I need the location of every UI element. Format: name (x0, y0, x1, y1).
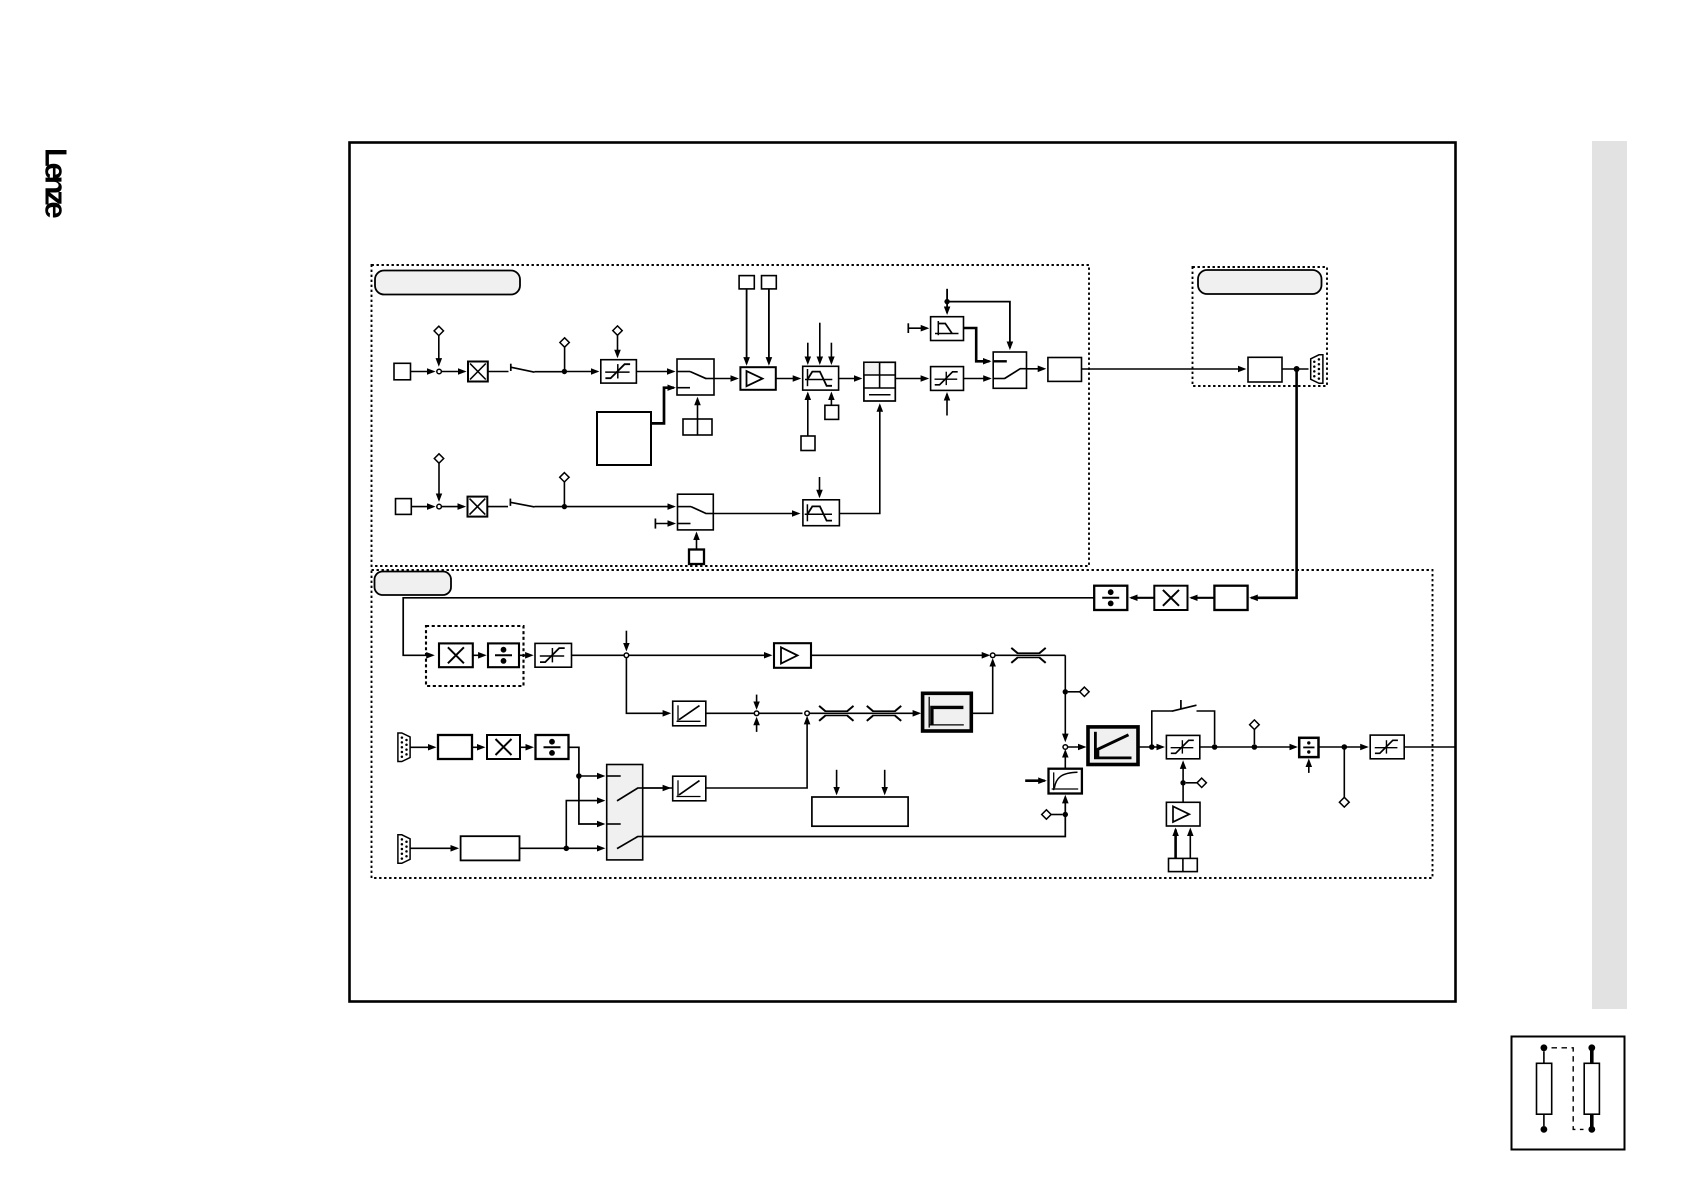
wire node A to amplifier block (629, 654, 771, 656)
divider box (feedback row) (1094, 586, 1127, 610)
wire S1 to amplifier (714, 378, 737, 380)
node C (open circle) (805, 711, 810, 716)
multiplier box 2 (X) (468, 497, 488, 517)
ramp block A (dI/dt) (673, 701, 706, 726)
parameter square right under ramp generator (825, 405, 839, 419)
wire node B rightwards with torque interface symbol (995, 654, 1065, 656)
wire clamp node to node C (759, 712, 803, 714)
wire multiplier to switch contact (488, 371, 509, 373)
wire junction 2 to changeover switch S3 (567, 506, 674, 508)
wire limiter 2 to changeover switch S2 (964, 378, 990, 380)
wire counter to selector input 4 with junction dot (520, 847, 604, 849)
branch wire to selector input 1 (579, 775, 603, 777)
wire amplifier to node B (811, 654, 988, 656)
wire limiter 4 to frame edge (1404, 746, 1455, 748)
divider box A (488, 643, 519, 667)
bold feedback wire down to division chain (1251, 370, 1296, 598)
wire node C to current limit block with interface symbols (809, 712, 919, 714)
wire PI output to limiter 3 with junction dot (1138, 746, 1163, 748)
wire diamond to node (438, 336, 440, 365)
section title plate (output section) (1198, 270, 1322, 294)
wire limiter A to node A (572, 654, 625, 656)
controller bypass switch loop (1152, 711, 1172, 747)
wire square to ramp generator bottom (807, 394, 809, 436)
changeover switch S3 (678, 494, 714, 530)
parameter diamond beside wire (1042, 810, 1051, 819)
wire B2 to summing node (411, 506, 433, 508)
outer frame of function diagram (350, 143, 1456, 1002)
connector X9 (encoder) (398, 835, 410, 864)
changeover switch S1 (677, 359, 714, 395)
wire P2 to amplifier top (768, 289, 770, 364)
node A lower branch to ramp block A (626, 658, 669, 714)
parameter diamond beside junction (1080, 687, 1089, 696)
parameter stub into S-ramp top (819, 477, 821, 496)
wire diamond to junction (564, 347, 566, 369)
amplifier block (torque) (774, 643, 811, 668)
wire diamond link (1051, 814, 1063, 816)
parameter diamond over limiter (613, 326, 622, 335)
wire junction to S2 top (947, 302, 1010, 348)
long feedback wire across to lower-left (403, 598, 1094, 656)
speed setpoint output box (1048, 358, 1082, 382)
section title plate (speed section) (375, 271, 520, 295)
connector X8 (resolver) (398, 733, 410, 762)
node A (open circle) (624, 653, 629, 658)
branch wire junction up to selector input 2 (566, 801, 603, 849)
inner dashed box (normalisation group) (426, 626, 524, 686)
junction dot (562, 369, 567, 374)
decoder box (438, 735, 472, 759)
wire selector to amplifier (1189, 830, 1191, 859)
switch contact 2 (509, 499, 511, 506)
wire ramp generator to hold table (839, 378, 861, 380)
parameter stub into limiter 2 bottom (946, 394, 948, 415)
wire S3 to S-ramp block (713, 513, 798, 515)
wire multiplier 2 to switch contact 2 (487, 506, 508, 508)
parameter diamond over junction 2 (560, 473, 569, 482)
wire amplifier up into limiter 3 bottom (1182, 762, 1184, 802)
wire diamond to limiter top (617, 335, 619, 356)
wire diamond to node 2 (438, 463, 440, 500)
bold wire JOG block to switch S1 lower input (651, 388, 674, 424)
wire diamond to junction 2 (563, 482, 565, 504)
summing node D before PI controller (1063, 745, 1068, 750)
wire table to limiter 2 (895, 378, 927, 380)
parameter diamond over node (434, 326, 443, 335)
selector box (two cells) below amplifier (1169, 858, 1198, 871)
right gray sidebar (1592, 141, 1627, 1009)
wire node D to PI controller (1068, 746, 1085, 748)
PT1 smoothing block (1049, 769, 1082, 794)
dashed alternate wiring (1552, 1048, 1584, 1130)
current limit block (bold, step symbol) (923, 693, 972, 731)
wire contact to junction dot (535, 371, 565, 373)
amplifier block V1 (740, 367, 775, 390)
quick stop ramp block (deceleration) (931, 317, 964, 341)
switch contact (normally open) (510, 364, 512, 371)
wire selector box to S1 bottom (697, 399, 699, 419)
wire to divider (leftwards) (1131, 597, 1154, 599)
parameter square under ramp generator (801, 436, 815, 451)
wire multiplier A to divider A (473, 654, 485, 656)
wire divider to limiter 4 with junction dot (1319, 746, 1367, 748)
parameter diamond over node 2 (434, 454, 443, 463)
T-stub into S3 lower input (654, 519, 656, 529)
wire diamond link (1186, 782, 1197, 784)
wire decoder to multiplier B (472, 746, 483, 748)
wire S2 to setpoint output box (1027, 368, 1045, 370)
wire selector output 2 across to PT1 bottom (643, 797, 1066, 837)
wire limiter to changeover switch (636, 371, 673, 373)
wire ramp A to clamp node (706, 712, 754, 714)
resistor R1 (internal) (1537, 1063, 1552, 1114)
parameter stub arrows into monitor box top (836, 770, 838, 794)
parameter square P1 over amplifier (739, 276, 754, 289)
limiter block A (535, 643, 572, 667)
wire square to S3 bottom (696, 534, 698, 550)
wire contact 2 to junction dot 2 (535, 506, 565, 508)
wire divider B down to selector switch inputs (569, 747, 604, 824)
PI controller block (bold) (1088, 727, 1138, 765)
small divider block (1299, 738, 1318, 757)
parameter diamond beside wire (1197, 778, 1206, 787)
wire diamond link (1068, 691, 1080, 693)
wire stub from top with junction dot (946, 289, 948, 313)
wire junction down to diamond (1343, 747, 1345, 797)
wire P1 to amplifier top (746, 289, 748, 364)
bold wire selector to amplifier (1174, 830, 1177, 859)
wire limiter 3 output with junction dots and diamond (1200, 746, 1296, 748)
wire ramp block B up into node C (643, 718, 807, 788)
parameter square P2 over amplifier (762, 276, 777, 289)
input square B2 (396, 499, 412, 515)
wire amplifier to ramp generator (776, 378, 799, 380)
bold parameter stub into PT1 left (1025, 779, 1045, 782)
wire PT1 output up into node D (1064, 751, 1066, 769)
wire down with junction dot and diamond (1064, 655, 1066, 740)
wire S-ramp output up into table bottom (839, 405, 879, 513)
multiplier box (feedback row) (1154, 586, 1187, 610)
changeover switch S2 (993, 352, 1026, 388)
junction dot 2 (562, 504, 567, 509)
limiter block (setpoint limit) (601, 360, 637, 383)
parameter stub into divider bottom (1308, 761, 1310, 773)
ramp block B (dn/dt) (673, 776, 706, 801)
bold wire quick stop ramp to S2 upper input (964, 328, 990, 361)
parameter stub into node A (625, 631, 627, 650)
monitor box (wide, bottom middle) (812, 797, 908, 826)
wire square to ramp generator bottom (830, 394, 832, 406)
wire junction to limiter (567, 371, 597, 373)
wire diamond to node E (1253, 730, 1255, 745)
T-stub input to quick stop ramp (907, 323, 909, 333)
selector code box (two cells) under S1 (683, 419, 712, 435)
feedback amplifier block (1166, 802, 1200, 826)
wire selector output 1 to ramp block B (643, 787, 669, 789)
JOG value block (597, 412, 651, 465)
dashed section box: torque/current section (lower) (372, 570, 1433, 878)
wire to connector with junction dot (1282, 368, 1309, 370)
long wire to output section (1082, 368, 1245, 370)
feedback selector switch (gray) (607, 765, 643, 860)
multiplier box B (X) (487, 735, 520, 759)
limiter block 3 (1166, 735, 1199, 758)
svg-text:Lenze: Lenze (39, 148, 74, 218)
wire connector to counter box (410, 847, 457, 849)
wire B1 to summing node (411, 371, 434, 373)
resistor R2 (external) (1584, 1063, 1599, 1114)
wire node to multiplier (441, 371, 464, 373)
external brake resistor box (bottom right) (1512, 1037, 1625, 1150)
ramp function generator (acceleration profile) (803, 366, 839, 390)
input square B1 (394, 363, 411, 380)
wire divider A to limiter A (519, 654, 532, 656)
wire current limit block up into node B (971, 660, 992, 713)
wire connector to decoder box (410, 746, 434, 748)
parameter diamond over junction (560, 338, 569, 347)
connector X5 (D-sub) (1311, 355, 1323, 384)
S-ramp rounding block (803, 500, 840, 526)
parameter stub arrows into ramp generator top (807, 343, 809, 363)
dashed section box: speed setpoint section (372, 265, 1090, 566)
wire node 2 to multiplier 2 (441, 506, 464, 508)
parameter square under S3 (689, 550, 704, 565)
multiplier box (X) (468, 362, 488, 382)
node B (open circle) (990, 653, 995, 658)
summing node (open circle) (437, 369, 442, 374)
output register box (in output section) (1248, 357, 1282, 382)
dashed section box: output section (top right) (1193, 267, 1328, 386)
wire to X multiplier (leftwards) (1191, 597, 1214, 599)
divider box B (536, 735, 569, 759)
limiter block 4 (output limiter) (1370, 735, 1404, 759)
wire multiplier B to divider B (520, 746, 532, 748)
section title plate (lower section) (375, 572, 452, 596)
parameter diamond over node E (1250, 720, 1260, 730)
limiter block 2 (931, 367, 964, 391)
multiplier box A (439, 643, 473, 667)
clamp node with converging arrows (756, 695, 758, 708)
normalisation box (feedback row) (1214, 586, 1247, 610)
summing node 2 (open circle) (437, 504, 442, 509)
counter box (wide) (461, 836, 520, 860)
ramp hold / characteristic table block (864, 362, 895, 401)
parameter diamond below (1339, 797, 1349, 807)
